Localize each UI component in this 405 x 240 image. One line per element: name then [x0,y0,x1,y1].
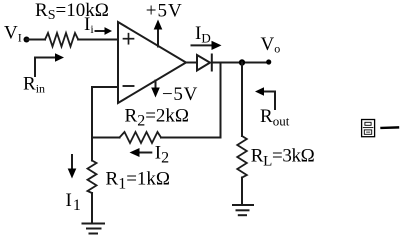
label Vo [261,34,281,56]
current arrow ID [192,41,222,50]
impedance arrow Rout [255,87,275,109]
svg-text:VI: VI [4,23,22,45]
label I1 [66,190,81,214]
wire RS to op-amp noninverting input [78,39,118,41]
wire R1 to ground [91,193,93,224]
svg-text:Vo: Vo [261,34,281,56]
diode D1 [197,55,212,71]
resistor R2 [120,132,162,143]
op-amp U1 [118,22,186,103]
label +5V [146,1,183,22]
label R1 value [106,169,171,193]
wire R2 to inverting node [92,137,120,139]
impedance arrow Rin [35,53,64,76]
wire VI to RS [27,39,46,41]
power +5V arrow [154,20,163,47]
current arrow I1 [68,155,77,179]
label figure title 圖一 [362,120,398,137]
label -5V [162,84,198,105]
current arrow I2 [130,148,152,157]
ground left [83,224,105,234]
label R2 value [125,106,190,130]
label VI [4,23,22,45]
junction dot output node [239,59,245,65]
node Vo terminal [266,59,271,64]
current arrow Ii [96,27,113,35]
power -5V arrow [151,81,160,98]
label I2 [155,143,169,167]
svg-text:Rin: Rin [23,74,45,96]
resistor RS [45,33,78,47]
resistor RL [237,136,247,178]
wire op-amp output to diode [186,62,197,64]
svg-text:−5V: −5V [162,84,198,105]
resistor R1 [88,161,97,194]
svg-text:+5V: +5V [146,1,183,22]
svg-text:RL=3kΩ: RL=3kΩ [251,146,315,170]
svg-text:I1: I1 [66,190,81,214]
label ID [195,23,211,46]
svg-text:I2: I2 [155,143,169,167]
wire inverting input [92,87,118,161]
label RL value [251,146,315,170]
node VI input terminal [24,37,30,43]
wire RL to ground [241,178,243,206]
wire diode to Vo terminal [212,62,269,64]
label Rin [23,74,45,96]
label Ii [84,14,94,36]
svg-text:ID: ID [195,23,211,46]
svg-text:RS=10kΩ: RS=10kΩ [35,0,109,23]
label RS value [35,0,109,23]
ground right [233,205,253,215]
svg-text:R2=2kΩ: R2=2kΩ [125,106,190,130]
wire R2 row right segment [161,137,221,139]
wire output node down to RL [241,63,243,137]
svg-text:R1=1kΩ: R1=1kΩ [106,169,171,193]
wire feedback from diode cathode down to R2 [220,63,222,138]
label Rout [260,106,290,129]
